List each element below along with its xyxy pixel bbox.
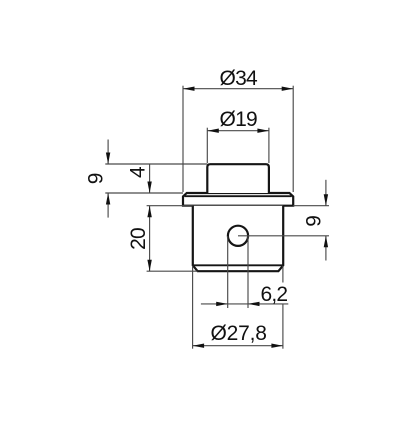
svg-text:9: 9: [302, 216, 325, 227]
body outline: [193, 206, 283, 272]
dimension line 9 right lower segment: [325, 236, 327, 261]
arrowhead 9 right upper: [324, 194, 328, 206]
label 6,2 background mask: [259, 283, 290, 305]
dimension line Ø27,8: [193, 345, 283, 347]
svg-text:Ø27,8: Ø27,8: [210, 322, 266, 345]
dimension line 4 upper segment: [149, 164, 151, 193]
body chamfer edge line: [193, 264, 283, 266]
dimension line 9 left upper segment: [107, 140, 109, 165]
hole circle: [228, 226, 248, 246]
dimension line 6,2: [201, 303, 288, 305]
label Ø27,8: [210, 322, 266, 345]
dimension line 9 right upper segment: [325, 180, 327, 206]
extension line flange top left: [105, 192, 183, 194]
extension lines dim Ø34: [183, 86, 293, 192]
svg-text:6,2: 6,2: [261, 283, 288, 306]
label 4: [127, 166, 150, 178]
extension line flange bottom right: [293, 205, 329, 207]
label 6,2: [261, 283, 288, 306]
flange outline: [183, 193, 293, 206]
extension line flange bottom left: [147, 205, 193, 207]
extension line hole center right: [238, 235, 329, 237]
extension line Ø27,8 right: [282, 266, 284, 349]
label 20: [127, 228, 150, 250]
arrowheads dim Ø27,8: [193, 344, 283, 348]
label 9 left: [85, 173, 108, 184]
boss outline: [207, 164, 269, 193]
dimension line Ø34: [183, 88, 293, 90]
dimension line Ø19: [207, 130, 269, 132]
extension lines dim 6,2: [228, 236, 248, 308]
svg-text:Ø34: Ø34: [220, 67, 258, 90]
extension lines dim Ø19: [207, 128, 269, 163]
label 9 right: [302, 216, 325, 227]
svg-text:4: 4: [127, 166, 150, 178]
flange rim tangent line: [185, 195, 292, 197]
extension line body bottom left: [147, 270, 198, 272]
dimension line 9 left lower segment: [107, 193, 109, 218]
dimension line 20: [149, 206, 151, 272]
extension line Ø27,8 left: [192, 266, 194, 349]
arrowhead 9 left lower: [106, 193, 110, 205]
label Ø34: [220, 67, 258, 90]
arrowheads dim 6,2: [216, 302, 259, 306]
svg-text:9: 9: [85, 173, 108, 184]
arrowheads dim Ø19: [207, 129, 269, 133]
svg-text:Ø19: Ø19: [220, 108, 257, 131]
label Ø19: [220, 108, 257, 131]
arrowheads dim Ø34: [183, 87, 293, 91]
arrowhead 4: [147, 182, 151, 194]
arrowheads dim 20: [147, 206, 151, 272]
arrowhead 9 left upper: [106, 153, 110, 165]
arrowhead 9 right lower: [324, 236, 328, 248]
extension line boss top left: [105, 163, 207, 165]
svg-text:20: 20: [127, 228, 150, 250]
